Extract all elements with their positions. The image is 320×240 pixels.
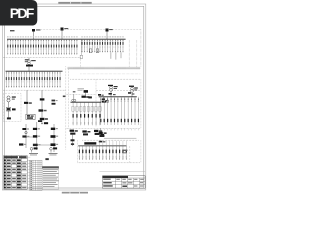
feeder F1-19 wire+breaker+label <box>53 39 55 54</box>
feeder F1-39 wire+breaker+label <box>104 39 106 52</box>
metering cluster M1 <box>102 98 105 100</box>
G3 wire lower <box>41 112 43 118</box>
feeder F1-37 wire+breaker+label <box>99 39 101 52</box>
feeder F2-16 wire+breaker+label <box>44 71 46 87</box>
feeder F1-45 wire+breaker+label <box>119 39 121 52</box>
long feeder tail x115.9 <box>115 52 117 59</box>
bottom caption text <box>62 192 88 194</box>
MCC-C top dotted border <box>82 139 138 141</box>
sheet inner border frame <box>4 6 144 188</box>
riser G2 wire <box>26 90 28 101</box>
incomer Q1 breaker+label <box>32 29 35 32</box>
spare symbol S1 label <box>29 152 38 155</box>
feeder F3-04 wire+breaker+label <box>110 97 112 125</box>
MCC-B to MCC-C tie line <box>104 137 136 139</box>
feeder F1-36 wire+breaker+label <box>96 39 98 52</box>
feeder F4-07 wire+starter+label <box>95 102 97 125</box>
cubicle wall dotted x65.8 <box>65 66 67 150</box>
feeder F1-32 wire+breaker+label <box>86 39 88 52</box>
breaker K3 cluster <box>88 96 92 98</box>
feeder F4-08 wire+starter+label <box>99 102 101 125</box>
feeder F4-01 wire+starter+label <box>72 102 74 125</box>
long feeder tail x121.0 <box>120 52 122 58</box>
relay R3a <box>19 143 23 145</box>
feeder F2-02 wire+breaker+label <box>8 71 10 87</box>
feeder F2-21 wire+breaker+label <box>57 71 59 87</box>
feeder F1-29 long drop with box <box>80 39 82 55</box>
MCC-C bottom dotted border <box>78 162 141 164</box>
sheet outer border frame <box>2 4 146 190</box>
transformer T3 winding+rating <box>131 87 134 90</box>
feeder F1-04 wire+breaker+label <box>14 39 16 54</box>
MCC-B outgoing detail <box>99 132 103 134</box>
feeder F1-20 wire+breaker+label <box>55 39 57 54</box>
relay R1c <box>51 128 55 130</box>
aux cluster CL1 <box>70 130 74 132</box>
relay G3c <box>40 118 45 120</box>
relay G3b <box>39 109 44 111</box>
note text top-left <box>10 30 15 31</box>
feeder F1-41 wire+breaker+label <box>109 39 111 52</box>
G2 wire lower <box>26 104 28 114</box>
MCC-B left dotted border <box>95 79 97 127</box>
feeder F1-17 wire+breaker+label <box>48 39 50 54</box>
feeder F2-14 wire+breaker+label <box>39 71 41 87</box>
feeder F5-02 wire+breaker+label <box>82 146 84 160</box>
chain bottom label <box>45 158 48 160</box>
relay R3b <box>33 144 38 146</box>
feeder F1-22 wire+breaker+label <box>61 39 63 54</box>
feeder F5-09 wire+breaker+label <box>105 146 107 160</box>
feeder F5-08 wire+breaker+label <box>102 146 104 160</box>
feeder F3-10 wire+breaker+label <box>131 97 133 125</box>
feeder F2-12 wire+breaker+label <box>33 71 35 87</box>
feeder F1-43 wire+breaker+label <box>114 39 116 52</box>
panel boundary dotted (below B1) <box>3 57 81 59</box>
feeder F1-01 wire+breaker+label <box>7 39 9 54</box>
fuse box F1-33 detail <box>89 49 92 53</box>
feeder F1-10 wire+breaker+label <box>30 39 32 54</box>
feeder F5-07 wire+breaker+label <box>99 146 101 160</box>
feeder F5-04 wire+breaker+label <box>88 146 90 160</box>
feeder F1-03 wire+breaker+label <box>12 39 14 54</box>
G3 load arrow <box>41 120 43 123</box>
legend table symbol+text cells <box>4 156 18 158</box>
feeder F5-06 wire+breaker+label <box>95 146 97 160</box>
cubicle top dotted border <box>37 29 141 31</box>
relay R3c <box>51 143 56 146</box>
bus B3 <box>99 96 137 98</box>
bus B4 <box>71 101 102 103</box>
cubicle divider dotted x136 <box>136 40 138 67</box>
cubicle right dotted border upper <box>140 30 142 67</box>
metering column wire x26 <box>25 124 27 148</box>
transformer T4 <box>72 99 74 101</box>
feeder F2-04 wire+breaker+label <box>13 71 15 87</box>
feeder F2-13 wire+breaker+label <box>36 71 38 87</box>
feeder F2-22 wire+breaker+label <box>59 71 61 87</box>
fuse box F1-36 detail <box>96 49 99 53</box>
feeder F1-30 wire+breaker+label <box>81 39 83 52</box>
cubicle wall dotted x68.7 <box>68 69 70 128</box>
legend leader lines <box>27 156 30 158</box>
feeder F1-24 wire+breaker+label <box>66 39 68 54</box>
bus B5 name plate <box>84 142 96 144</box>
feeder F4-03 wire+starter+label <box>80 102 82 125</box>
relay R1a <box>22 128 26 130</box>
feeder F4-06 wire+starter+label <box>91 102 93 125</box>
feeder F2-17 wire+breaker+label <box>46 71 48 87</box>
MCC-B right dotted border <box>140 79 142 128</box>
cubicle right dotted border lower <box>140 140 142 163</box>
feeder F3-08 wire+breaker+label <box>124 97 126 125</box>
feeder F3-02 wire+breaker+label <box>103 97 105 125</box>
transformer T2 winding+rating <box>110 86 113 89</box>
feeder F3-05 wire+breaker+label <box>113 97 115 125</box>
feeder F1-42 wire+breaker+label <box>112 39 114 52</box>
bus B5 <box>78 145 126 147</box>
riser G3 wire <box>41 90 43 98</box>
wall tag left <box>63 96 66 98</box>
bus B2 <box>6 70 63 72</box>
feeder F5-10 wire+breaker+label <box>109 146 111 160</box>
feeder F2-06 wire+breaker+label <box>18 71 20 87</box>
terminal comb rail <box>68 67 141 69</box>
spare symbol S1 icon <box>30 148 33 151</box>
feeder F3-06 wire+breaker+label <box>117 97 119 125</box>
feeder F1-27 wire+breaker+label <box>73 39 75 54</box>
feeder F5-15 wire+breaker+label <box>125 146 127 160</box>
feeder F2-10 wire+breaker+label <box>28 71 30 87</box>
PDF badge <box>0 0 37 26</box>
feeder F1-28 wire+breaker+label <box>76 39 78 54</box>
converter unit U1 <box>6 107 10 111</box>
feeder F1-31 wire+breaker+label <box>84 39 86 52</box>
distribution box DB1 dotted border <box>4 93 22 121</box>
feeder F4-04 wire+starter+label <box>84 102 86 125</box>
feeder F1-44 wire+breaker+label <box>117 39 119 52</box>
transformer T5 winding <box>7 96 10 99</box>
title block header texts <box>103 179 111 180</box>
revision table grid <box>30 160 42 190</box>
MCC-B inner dotted separator <box>96 90 141 92</box>
relay R2b <box>33 135 37 137</box>
aux cluster CL1 tail <box>71 139 75 141</box>
page background <box>0 0 149 198</box>
feeder F3-09 wire+breaker+label <box>127 97 129 125</box>
notes block border <box>42 166 59 189</box>
aux cluster CL2 <box>82 130 86 132</box>
MCC-C left dotted border <box>77 140 79 163</box>
title block row3 texts <box>103 185 113 186</box>
feeder F1-12 wire+breaker+label <box>35 39 37 54</box>
feeder F1-21 wire+breaker+label <box>58 39 60 54</box>
feeder F5-05 wire+breaker+label <box>92 146 94 160</box>
feeder F4-02 wire+starter+label <box>76 102 78 125</box>
spare symbol S2 icon <box>50 148 53 151</box>
bus B1 <box>7 38 126 40</box>
feeder F5-14 wire+breaker+label <box>122 146 124 160</box>
feeder F5-01 wire+breaker+label <box>78 146 80 160</box>
CT label top <box>38 120 42 122</box>
feeder F1-26 wire+breaker+label <box>71 39 73 54</box>
feeder F2-19 wire+breaker+label <box>51 71 53 87</box>
feeder F3-11 wire+breaker+label <box>134 97 136 125</box>
feeder F1-23 wire+breaker+label <box>63 39 65 54</box>
breaker G3a <box>40 98 45 100</box>
feeder F2-03 wire+breaker+label <box>10 71 12 87</box>
feeder F5-13 wire+breaker+label <box>119 146 121 160</box>
breaker K2 cluster <box>82 96 86 98</box>
MCC-C right dotted border <box>129 146 131 163</box>
title block top rule <box>100 170 146 172</box>
relay R2c <box>51 135 56 138</box>
meter box G2b <box>26 114 35 119</box>
breaker G2a <box>24 102 28 104</box>
meter circle M2 <box>25 131 27 133</box>
tie dotted above B4 <box>66 93 96 95</box>
metering column wire x36.8 <box>36 122 38 150</box>
feeder F5-03 wire+breaker+label <box>85 146 87 160</box>
cubicle bottom dotted y128.3 <box>66 127 141 129</box>
feeder F5-12 wire+breaker+label <box>115 146 117 160</box>
feeder F2-05 wire+breaker+label <box>16 71 18 87</box>
feeder F2-20 wire+breaker+label <box>54 71 56 87</box>
feeder F1-02 wire+breaker+label <box>9 39 11 54</box>
svg-text:PDF: PDF <box>10 5 35 21</box>
feeder F1-25 wire+breaker+label <box>68 39 70 54</box>
revision row id marks <box>30 160 32 163</box>
cubicle divider dotted x129 <box>128 40 130 67</box>
feeder F2-07 wire+breaker+label <box>21 71 23 87</box>
feeder F1-16 wire+breaker+label <box>45 39 47 54</box>
feeder F1-46 wire+breaker+label <box>122 39 124 52</box>
feeder F1-07 wire+breaker+label <box>22 39 24 54</box>
B5 right side notes <box>123 150 127 151</box>
cluster above B5 <box>99 141 102 143</box>
DB1 outgoing wire+lug <box>8 111 10 117</box>
relay R2a <box>22 135 26 137</box>
metering column wire x54 <box>53 124 55 152</box>
long feeder tail x110.9 <box>110 52 112 59</box>
feeder F2-01 wire+breaker+label <box>5 71 7 87</box>
cubicle left dotted border x80.4 <box>79 58 81 68</box>
feeder F3-03 wire+breaker+label <box>107 97 109 125</box>
feeder F1-11 wire+breaker+label <box>32 39 34 54</box>
feeder F2-09 wire+breaker+label <box>26 71 28 87</box>
MCC-B top dotted border <box>70 78 140 80</box>
incomer Q2 breaker+label <box>61 28 64 31</box>
feeder F1-34 wire+breaker+label <box>91 39 93 52</box>
feeder F1-40 wire+breaker+label <box>107 39 109 52</box>
feeder F3-12 wire+breaker+label <box>137 97 139 125</box>
panel boundary dotted (below B2) <box>3 89 66 91</box>
feeder F3-01 wire+breaker+label <box>100 97 102 125</box>
notes text lines <box>43 168 58 171</box>
feeder F1-35 wire+breaker+label <box>94 39 96 52</box>
node label gray text <box>78 88 85 89</box>
feeder F1-33 wire+breaker+label <box>89 39 91 52</box>
feeder F3-07 wire+breaker+label <box>120 97 122 125</box>
feeder F1-09 wire+breaker+label <box>27 39 29 54</box>
top caption text <box>58 2 91 4</box>
feeder F1-08 wire+breaker+label <box>25 39 27 54</box>
node label cluster top-center <box>73 91 76 92</box>
legend table grid <box>4 156 28 190</box>
title block company bar <box>103 176 129 178</box>
feeder F1-06 wire+breaker+label <box>20 39 22 54</box>
incomer Q3 breaker+label <box>106 29 109 32</box>
feeder F1-13 wire+breaker+label <box>38 39 40 54</box>
G3 wire mid <box>41 101 43 110</box>
feeder F1-05 wire+breaker+label <box>17 39 19 54</box>
feeder F1-15 wire+breaker+label <box>43 39 45 54</box>
terminal comb ticks <box>67 67 69 70</box>
B3 left-end labels <box>98 94 101 96</box>
feeder F1-38 wire+breaker+label <box>102 39 104 52</box>
interconnect wire y145 <box>37 144 54 146</box>
feeder F2-15 wire+breaker+label <box>41 71 43 87</box>
spare symbol S2 label <box>49 152 58 155</box>
aux cluster CL3 <box>94 130 98 132</box>
feeder F1-18 wire+breaker+label <box>50 39 52 54</box>
feeder F1-14 wire+breaker+label <box>40 39 42 54</box>
feeder F2-18 wire+breaker+label <box>49 71 51 87</box>
aux blob pair left of B4 <box>52 100 56 102</box>
interconnect wire y137 <box>26 136 37 138</box>
feeder F2-08 wire+breaker+label <box>23 71 25 87</box>
title block row2 texts <box>103 182 112 183</box>
terminal dotted row lower <box>80 73 140 75</box>
feeder F5-11 wire+breaker+label <box>112 146 114 160</box>
transformer T1 winding+rating <box>28 58 30 60</box>
feeder F2-11 wire+breaker+label <box>31 71 33 87</box>
feeder F4-05 wire+starter+label <box>87 102 89 125</box>
relay R1b <box>33 128 37 130</box>
notes header bar <box>42 166 59 168</box>
title block grid <box>103 176 146 189</box>
